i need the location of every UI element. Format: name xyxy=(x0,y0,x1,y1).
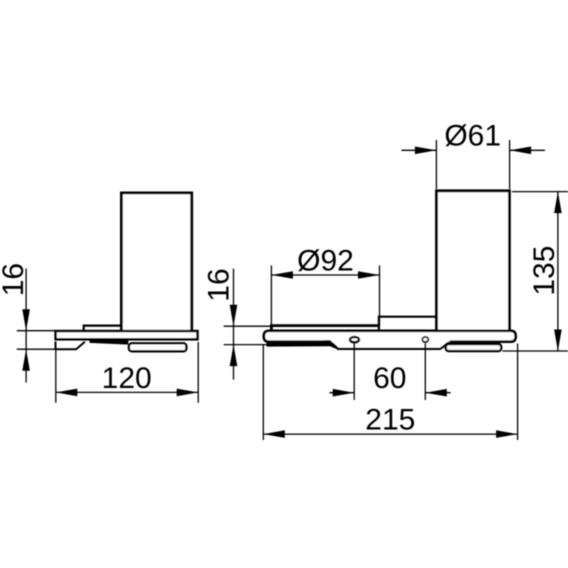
dim 135: dimension line xyxy=(557,192,559,351)
dim O92: arrow right xyxy=(358,271,380,279)
svg-text:120: 120 xyxy=(102,362,152,395)
dim 135: arrow up xyxy=(554,192,562,214)
dim 16 right: arrow down xyxy=(230,305,238,327)
svg-text:16: 16 xyxy=(0,263,30,296)
dim 60: left extension line xyxy=(353,343,355,400)
svg-text:16: 16 xyxy=(203,268,236,301)
shelf outline (bottom edge open in the middle) xyxy=(264,331,516,342)
mounting bar (side view) xyxy=(56,331,198,339)
holder arm wedge under shelf (filled taper) xyxy=(267,340,339,350)
dim 16 left: lower extension line xyxy=(17,348,57,350)
holder lip tab left of glass xyxy=(84,326,121,331)
svg-text:Ø61: Ø61 xyxy=(444,119,501,152)
holder ring piece under shelf right xyxy=(446,344,501,351)
dim 60: left tail line xyxy=(329,392,354,394)
glass tumbler (side view) xyxy=(121,193,191,332)
svg-text:215: 215 xyxy=(365,404,415,437)
rim-to-shelf vertical edge xyxy=(378,316,380,331)
glass tumbler (front view cylinder) xyxy=(437,191,510,332)
dim 215: left extension line xyxy=(262,344,264,440)
wall plate bottom edge xyxy=(337,348,441,350)
dim 16 right: dimension line xyxy=(233,269,235,380)
svg-text:135: 135 xyxy=(528,246,561,296)
dim 215: arrow right xyxy=(496,430,517,438)
dim 120: dimension line xyxy=(56,391,198,393)
dim 16 left: arrow up xyxy=(22,349,30,371)
dim 135: bottom extension line xyxy=(502,350,568,352)
dim 60: arrow pointing right xyxy=(333,389,355,397)
dim 16 left: arrow down xyxy=(22,309,30,331)
dim 120: arrow right xyxy=(177,389,199,397)
dim 135: top extension line xyxy=(512,191,568,193)
dim O92: left extension line xyxy=(270,265,272,326)
dim O61: right extension line xyxy=(509,140,511,189)
screw hole right xyxy=(422,337,428,342)
dim O61: arrow pointing right xyxy=(415,147,437,155)
dim O92: arrow left xyxy=(271,271,293,279)
dim 120: arrow left xyxy=(56,389,78,397)
screw hole left xyxy=(350,337,359,342)
dim 215: arrow left xyxy=(263,430,285,438)
dim 135: arrow down xyxy=(554,330,562,352)
shelf plate xyxy=(264,331,516,342)
shelf back rim seen between ring and tumbler xyxy=(379,316,437,318)
svg-text:Ø92: Ø92 xyxy=(297,244,354,277)
dim 215: dimension line xyxy=(263,433,517,435)
dim 60: right tail line xyxy=(425,392,450,394)
dim O61: right tail line xyxy=(510,149,545,151)
dim 60: right extension line xyxy=(424,343,426,400)
dim 16 left: upper extension line xyxy=(17,330,56,332)
dim O61: arrow pointing left xyxy=(510,147,531,155)
dim 16 right: arrow up xyxy=(230,345,238,367)
dim 120: right extension line xyxy=(197,342,199,403)
dim 120: left extension line xyxy=(55,350,57,403)
holder arm wedge (filled taper) xyxy=(90,339,129,345)
dim O92: dimension line xyxy=(271,274,379,276)
wall plate step below bar xyxy=(56,342,85,350)
wall plate slant edge xyxy=(441,342,450,349)
holder ring piece below bar xyxy=(129,343,187,351)
dim O61: left tail line xyxy=(401,149,436,151)
dim 16 left: dimension line xyxy=(25,269,27,383)
dim 60: arrow pointing left xyxy=(425,389,447,397)
dim O92: right extension line xyxy=(379,265,381,326)
dim 16 right: lower extension line xyxy=(224,344,273,346)
svg-text:60: 60 xyxy=(373,362,406,395)
glass holder ring lip (O92) xyxy=(271,326,379,331)
dim O61: left extension line xyxy=(435,140,437,189)
dim 215: right extension line xyxy=(517,344,519,441)
dim 16 right: upper extension line xyxy=(224,325,272,327)
